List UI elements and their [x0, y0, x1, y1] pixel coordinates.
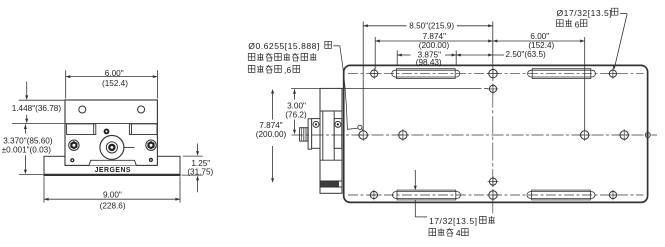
svg-text:17/32[13.5]: 17/32[13.5] — [429, 216, 478, 226]
mounting hole lower center — [488, 176, 499, 187]
svg-text:9.00": 9.00" — [103, 191, 122, 200]
svg-text:6.00": 6.00" — [530, 32, 549, 41]
svg-text:(31.75): (31.75) — [187, 168, 213, 177]
left view small screw right — [149, 158, 153, 162]
svg-text:8.50"(215.9): 8.50"(215.9) — [409, 21, 454, 30]
dimension 8.50 inch — [363, 21, 493, 30]
svg-text:7.874": 7.874" — [259, 121, 282, 130]
slot top left — [392, 69, 460, 79]
dimension 6.00 inch — [66, 69, 158, 99]
dimension 3.370 inch — [2, 124, 53, 174]
left view top hole left — [79, 106, 86, 113]
mounting hole upper center — [488, 84, 499, 95]
precision hole top center — [487, 68, 499, 80]
svg-text:Ø17/32[13.5]: Ø17/32[13.5] — [557, 8, 613, 18]
dimension 7.874 inch — [375, 32, 493, 50]
dimension 2.50 inch — [456, 50, 546, 59]
dimension 3.875 inch — [397, 50, 456, 67]
vertical centerline — [492, 22, 494, 216]
precision hole mid far-left — [357, 129, 369, 141]
left view vise body — [65, 100, 157, 165]
right view drive housing — [291, 88, 343, 193]
right view splined drive shaft — [300, 128, 309, 141]
mounting hole bottom right — [608, 190, 619, 201]
dimension 7.874 inch vertical — [256, 89, 287, 183]
svg-text:Ø0.6255[15.888]: Ø0.6255[15.888] — [248, 41, 320, 51]
annotation precision holes (Chinese leader) — [248, 41, 363, 131]
slot bottom left — [392, 190, 460, 200]
svg-text:6.00": 6.00" — [105, 69, 124, 78]
mounting hole top left — [369, 68, 380, 79]
left view small screw left — [70, 158, 74, 162]
left view clamp screw — [104, 129, 110, 135]
dimension 1.448 inch — [12, 82, 65, 124]
svg-text:1.448"(36.78): 1.448"(36.78) — [12, 104, 62, 113]
left view top hole right — [138, 106, 145, 113]
svg-text:4: 4 — [456, 228, 461, 238]
left view base plate — [43, 156, 180, 175]
svg-text:(76.2): (76.2) — [285, 110, 307, 119]
top hole row centerline — [348, 73, 644, 75]
mounting hole bottom left — [369, 190, 380, 201]
left view lead screw boss — [100, 135, 135, 159]
dimension 9.00 inch — [44, 176, 180, 210]
svg-text:(228.6): (228.6) — [100, 202, 126, 211]
slot top right — [528, 69, 596, 79]
svg-text:(152.4): (152.4) — [528, 41, 554, 50]
precision hole bottom center — [487, 189, 499, 201]
left view hex screw right — [146, 140, 156, 150]
right view right bracket — [334, 119, 342, 149]
annotation mounting holes 6 places — [557, 8, 628, 70]
svg-text:3.370"(85.60): 3.370"(85.60) — [3, 137, 53, 146]
precision hole mid left — [397, 129, 409, 141]
precision hole mid right — [579, 129, 591, 141]
mounting hole top right — [608, 68, 619, 79]
right view left bracket — [312, 119, 320, 149]
extension lines right view — [344, 22, 585, 131]
left view hex screw left — [69, 140, 79, 150]
svg-text:,6: ,6 — [284, 65, 291, 75]
right view base plate outline — [344, 65, 648, 202]
precision hole mid far-right — [618, 129, 630, 141]
dimension 6.00 inch right view — [493, 32, 585, 50]
dimension 3.00 inch — [285, 89, 307, 134]
horizontal centerline — [292, 134, 658, 136]
svg-text:±0.001"(0.03): ±0.001"(0.03) — [2, 146, 52, 155]
svg-text:6: 6 — [575, 19, 580, 29]
left view left jaw plate — [67, 124, 96, 135]
left view right jaw plate — [129, 124, 157, 135]
svg-text:JERGENS: JERGENS — [95, 167, 131, 174]
svg-text:(200.00): (200.00) — [419, 41, 450, 50]
left view JERGENS label — [95, 167, 131, 174]
left view name plate — [89, 160, 136, 165]
right view edge notch — [645, 133, 650, 138]
slot bottom right — [527, 190, 595, 200]
svg-text:(200.00): (200.00) — [256, 130, 287, 139]
svg-text:2.50"(63.5): 2.50"(63.5) — [506, 50, 547, 59]
dimension 1.25 inch — [182, 144, 214, 193]
annotation slotted mounting holes 4 places — [414, 170, 495, 238]
bottom hole row centerline — [348, 194, 644, 196]
svg-text:(152.4): (152.4) — [102, 79, 128, 88]
svg-text:(98.43): (98.43) — [416, 58, 442, 67]
right view shaft flange — [308, 119, 312, 149]
left view jaw division line — [65, 123, 157, 125]
svg-text:7.874": 7.874" — [423, 32, 446, 41]
svg-text:3.00": 3.00" — [287, 101, 306, 110]
